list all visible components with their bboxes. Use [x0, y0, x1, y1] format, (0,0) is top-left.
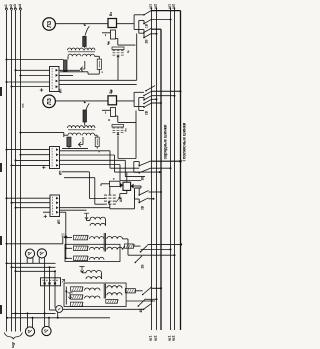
- wire bank top: [60, 207, 110, 209]
- core T1: [68, 51, 95, 53]
- plus ip1: [40, 88, 43, 91]
- label 8V: [139, 308, 143, 313]
- bus S1: [151, 8, 153, 330]
- wire arr1-l1: [87, 218, 91, 221]
- wire left bus line 1: [6, 10, 8, 332]
- wire f2-t2: [84, 122, 86, 126]
- wire arr2-l4: [82, 271, 86, 273]
- label 5V: [141, 176, 145, 181]
- wire r1b down: [88, 69, 99, 74]
- wire vm-1: [6, 262, 56, 264]
- node bus top: [156, 8, 157, 9]
- label 6V: [141, 205, 145, 210]
- bus S2: [156, 8, 158, 330]
- wire y301: [126, 300, 155, 302]
- dot ab: [108, 202, 110, 204]
- bus S3: [170, 8, 172, 330]
- label 7V: [141, 264, 145, 269]
- label shc: [21, 103, 25, 108]
- label IP3: [57, 219, 61, 224]
- resistor R2b: [95, 137, 99, 147]
- wire ab down: [110, 186, 135, 208]
- box VU2: [108, 96, 117, 105]
- wire r4 left: [65, 247, 72, 249]
- wire c2-1: [152, 90, 182, 92]
- wire r11 right: [135, 290, 142, 292]
- coil L4: [86, 270, 101, 272]
- wire tap y59.5: [6, 59, 64, 61]
- label r1b: [100, 71, 104, 73]
- instrument small: [56, 306, 63, 313]
- label IP1: [59, 88, 63, 93]
- label bus 1: [4, 4, 8, 9]
- svg-text:АБ: АБ: [119, 197, 123, 202]
- node bus top: [151, 8, 152, 9]
- fork ch1 inner: [139, 20, 144, 37]
- coil LB2: [107, 293, 122, 296]
- wire t2 sec left: [64, 133, 68, 138]
- margin mark: [0, 236, 2, 245]
- label VU1: [109, 12, 113, 16]
- wire riser x136: [135, 111, 137, 159]
- svg-text:2В: 2В: [144, 110, 148, 115]
- svg-text:ЛЗ: ЛЗ: [47, 20, 53, 28]
- meter A1: [25, 327, 34, 336]
- label c2 switches: [144, 110, 148, 115]
- label bus top ш1: [168, 4, 172, 9]
- node terminal bus 2: [10, 8, 12, 10]
- svg-text:ш2: ш2: [172, 336, 176, 341]
- label bus bottom ш2: [172, 336, 176, 341]
- transformer T2 secondary: [68, 133, 95, 135]
- svg-text:ш3: ш3: [13, 4, 17, 9]
- switch 6V blade b: [138, 198, 148, 204]
- wire left bus line 2: [11, 10, 13, 332]
- wire t2-left: [20, 132, 64, 134]
- fuse F2: [83, 110, 87, 122]
- svg-text:ш2: ш2: [154, 336, 158, 341]
- wire a1 leads: [27, 312, 34, 327]
- fork c3: [134, 162, 139, 173]
- coil TV2: [107, 247, 123, 249]
- wire t1 sec right: [95, 56, 100, 59]
- wire c6-2: [149, 198, 155, 200]
- wire left bus line 3: [15, 10, 17, 332]
- wire ip1 out1: [59, 69, 80, 71]
- wire c2-2: [152, 95, 176, 97]
- wire bat feed upper: [62, 172, 106, 199]
- wire r2a bottom: [62, 147, 88, 149]
- connector IP1: [50, 67, 60, 92]
- battery BK2: [112, 125, 124, 135]
- wire t2 sec right: [95, 135, 98, 137]
- wire c6-1: [149, 191, 163, 193]
- label BK1 right: [126, 50, 130, 53]
- wire c1-2: [152, 19, 172, 21]
- svg-text:4В: 4В: [139, 308, 143, 313]
- switch 7V blade a: [140, 245, 148, 252]
- svg-text:3В: 3В: [141, 205, 145, 210]
- wire ch1 main: [55, 23, 108, 25]
- svg-text:ЛЗ: ЛЗ: [47, 97, 53, 105]
- wire vert 126.8: [126, 173, 128, 183]
- coil TV1: [107, 237, 123, 239]
- label title I: [181, 122, 186, 161]
- margin mark: [0, 87, 2, 96]
- meter V1: [25, 249, 34, 258]
- diode D2: [102, 108, 116, 117]
- label P: [112, 178, 116, 180]
- contact right: [131, 184, 134, 189]
- switch 8V blade b: [138, 299, 146, 307]
- svg-text:д: д: [107, 119, 111, 121]
- svg-text:2В: 2В: [144, 39, 148, 44]
- wire shunt drop b: [49, 266, 51, 310]
- svg-text:ш1: ш1: [149, 336, 153, 341]
- switch 4V blade b: [143, 103, 151, 108]
- wire c4-3: [141, 249, 172, 251]
- wire l1-l2: [105, 220, 107, 226]
- svg-text:п: п: [112, 178, 116, 180]
- label brace: [10, 341, 15, 347]
- wire c1-1 thick: [152, 10, 181, 12]
- wire riser x135.5: [136, 34, 138, 81]
- wire fuse P left: [101, 184, 110, 186]
- wire ip1-a: [15, 69, 50, 71]
- label IP2: [59, 170, 63, 175]
- resistor R6: [125, 244, 136, 248]
- arrow shunt: [62, 279, 65, 282]
- node terminal bus 1: [5, 8, 7, 10]
- label bus bottom ш2: [154, 336, 158, 341]
- wire shunt drop c: [54, 270, 56, 307]
- wire vm-2: [11, 266, 56, 268]
- wire c4-1: [148, 243, 183, 245]
- bus S4: [174, 8, 176, 330]
- switch 2V blade b: [143, 33, 151, 38]
- resistor R10: [106, 299, 119, 303]
- bus charge thick1: [160, 29, 162, 330]
- margin mark: [0, 163, 2, 172]
- wire stub v62.8: [61, 234, 64, 244]
- wire bk2 tail: [118, 135, 136, 158]
- wire d2-route: [116, 116, 137, 122]
- wire circle leads: [50, 308, 56, 311]
- svg-text:ИП: ИП: [57, 219, 61, 224]
- wire vaz right down: [134, 190, 136, 209]
- svg-text:ш1: ш1: [4, 4, 8, 9]
- arrow down 2: [79, 267, 84, 273]
- arrester ch2: [79, 137, 84, 147]
- wire circle bottom: [57, 312, 59, 319]
- contact left: [120, 183, 123, 188]
- svg-text:2В: 2В: [141, 264, 145, 269]
- wire v2 leads: [39, 258, 44, 264]
- switch ch2: [84, 102, 90, 113]
- switch 5V blade a: [138, 161, 151, 167]
- switch 7V blade b: [135, 256, 143, 263]
- label r2b: [97, 150, 101, 152]
- wire bk1 tail: [117, 58, 119, 81]
- fork ch2 inner: [139, 98, 144, 111]
- resistor R1b: [97, 59, 101, 69]
- wire a2 leads: [45, 313, 50, 326]
- transformer T1 primary: [68, 48, 96, 50]
- label bus bottom ш1: [149, 336, 153, 341]
- fork ch2 outer: [134, 92, 144, 106]
- wire vu1-fork: [117, 23, 135, 25]
- transformer T2 primary: [68, 126, 96, 128]
- switch 9V: [143, 304, 151, 310]
- svg-text:зарядные шинки: зарядные шинки: [162, 124, 167, 159]
- wire bank top2: [60, 209, 87, 211]
- transformer T1 secondary: [68, 54, 95, 56]
- coil L5: [86, 277, 101, 279]
- label VU2: [109, 89, 113, 93]
- wire ip1-b: [20, 75, 50, 77]
- box A: [65, 244, 120, 261]
- box B: [64, 283, 126, 307]
- wire tv2-r6: [123, 246, 125, 250]
- label AB: [119, 197, 123, 202]
- meter P1: [43, 18, 56, 31]
- node terminal bus 4: [19, 8, 21, 10]
- switch ch1: [84, 24, 90, 35]
- core T2: [68, 129, 95, 131]
- connector IP3: [50, 195, 60, 217]
- label bus bottom ш1: [168, 336, 172, 341]
- label 2V: [144, 39, 148, 44]
- label 1V: [144, 23, 148, 28]
- wire ip1-c: [6, 81, 50, 83]
- label bus top ш2: [154, 4, 158, 9]
- meter V2: [37, 249, 46, 258]
- label misc y90: [110, 90, 114, 93]
- wire y243.8: [6, 243, 63, 245]
- svg-text:I полюсные шинки: I полюсные шинки: [181, 122, 186, 161]
- wire ip1 out3 long: [59, 79, 137, 81]
- wire ip2-a: [6, 149, 50, 151]
- label bus top ш2: [172, 4, 176, 9]
- switch 6V blade a: [138, 191, 148, 196]
- wire c2-4: [152, 102, 163, 104]
- switch 3V blade a: [143, 91, 151, 96]
- plus ip3: [44, 215, 47, 218]
- svg-text:3В: 3В: [141, 176, 145, 181]
- label bus top ш1: [149, 4, 153, 9]
- svg-text:Вк: Вк: [109, 12, 113, 16]
- svg-text:шс: шс: [21, 103, 25, 108]
- wire c5-2: [146, 298, 158, 300]
- coil LB1: [107, 286, 122, 289]
- switch 5V blade b: [138, 168, 151, 174]
- switch 8V blade a: [142, 287, 151, 295]
- wire f1-t1: [84, 47, 86, 48]
- brace left bus: [4, 333, 22, 340]
- wire ip2 out1: [60, 151, 140, 168]
- wire c1-3 thick: [152, 28, 162, 30]
- wire bank left bus: [65, 212, 67, 258]
- label bus 4: [18, 4, 22, 9]
- battery BK1: [112, 47, 124, 57]
- shunt Sh: [41, 278, 61, 286]
- switch 3V blade b: [143, 96, 151, 101]
- wire vaz right: [134, 186, 141, 188]
- wire c3-2: [151, 167, 172, 169]
- arrow up: [64, 235, 68, 249]
- wire r6 right: [134, 245, 141, 247]
- margin mark: [0, 305, 2, 314]
- transformer TV core: [104, 233, 105, 252]
- label BK1 left: [106, 41, 110, 45]
- connector IP2: [50, 147, 60, 169]
- plus ip2: [42, 166, 45, 169]
- wire bankB left bus: [65, 287, 67, 305]
- arrester ch1: [81, 61, 85, 71]
- wire r2b down: [96, 147, 98, 149]
- wire c4-2: [142, 254, 176, 256]
- wire y313.4: [12, 312, 56, 314]
- switch blade y84.6: [145, 86, 155, 92]
- meter A2: [42, 326, 51, 335]
- switch 1V blade b: [143, 19, 151, 24]
- wire c3-1 thick: [151, 160, 182, 163]
- svg-text:щу: щу: [10, 341, 15, 347]
- wire bank left feed: [60, 211, 66, 213]
- meter P2: [43, 95, 56, 108]
- label D2: [107, 119, 111, 121]
- wire ip2 out4: [60, 165, 142, 181]
- label BK2: [123, 128, 127, 132]
- wire ch2 main: [55, 100, 108, 102]
- node terminal bus 3: [14, 8, 16, 10]
- wire ip3-d: [43, 211, 50, 213]
- wire y318 long: [6, 317, 110, 319]
- resistor R11: [125, 289, 136, 293]
- wire ip2-b: [20, 154, 50, 156]
- wire c5-1 thick: [151, 287, 162, 289]
- arrow down 3: [65, 290, 72, 298]
- wire l4-l5: [101, 273, 103, 279]
- wire left bus line 4: [20, 10, 22, 332]
- wire shunt drop a: [44, 263, 46, 314]
- box VAZ: [123, 182, 131, 190]
- coil L1: [90, 217, 105, 219]
- diode D1: [102, 30, 116, 39]
- bus charge thick2: [180, 11, 182, 330]
- wire ip2 out2: [60, 155, 161, 173]
- wire r3 left: [65, 237, 72, 239]
- label D1: [107, 41, 111, 43]
- wire c2-3: [152, 98, 158, 100]
- svg-text:ξк: ξк: [126, 50, 130, 53]
- node bus top: [170, 8, 171, 9]
- fuse P: [110, 181, 121, 186]
- label title II: [162, 124, 167, 159]
- svg-text:ИП: ИП: [59, 170, 63, 175]
- switch 2V blade a: [143, 28, 151, 33]
- label bus 3: [13, 4, 17, 9]
- resistor R7: [71, 287, 100, 291]
- box VU1: [108, 19, 117, 28]
- resistor R1a: [64, 60, 68, 72]
- resistor R4: [74, 246, 105, 251]
- wire ip1 out4 long: [59, 84, 137, 86]
- svg-text:ИП: ИП: [59, 88, 63, 93]
- wire ip2 out3: [60, 160, 146, 176]
- wire c1-4: [152, 33, 158, 35]
- wire vu2-fork: [117, 100, 135, 102]
- svg-text:Вк: Вк: [109, 89, 113, 93]
- switch 4V blade a: [143, 99, 151, 104]
- wire vaz bottom: [120, 190, 127, 198]
- resistor R9: [71, 302, 84, 306]
- switch 1V blade a: [143, 10, 151, 15]
- resistor R2a: [67, 137, 71, 147]
- wire ip3-a: [6, 197, 51, 199]
- resistor R8: [71, 295, 100, 299]
- fork c6: [135, 188, 140, 203]
- arrow down 1: [84, 213, 89, 219]
- svg-text:Бк: Бк: [106, 41, 110, 45]
- wire ip2-d: [11, 164, 50, 166]
- wire v1 leads: [27, 258, 33, 263]
- wire ip3-c: [15, 207, 51, 209]
- label bus 2: [9, 4, 13, 9]
- wire d1-route: [116, 39, 136, 46]
- wire ip2-c: [15, 159, 50, 161]
- coil L2: [90, 223, 105, 225]
- wire y309: [63, 308, 144, 310]
- wire tv1 out: [123, 239, 143, 255]
- svg-text:ш4: ш4: [18, 4, 22, 9]
- wire bat feed lower: [64, 178, 104, 205]
- wire r5 left: [65, 257, 72, 259]
- wire t1 sec left: [67, 56, 69, 59]
- svg-text:1В: 1В: [144, 23, 148, 28]
- transformer TV2 core: [104, 284, 105, 299]
- node bus top: [174, 8, 175, 9]
- svg-text:Ак: Ак: [123, 128, 127, 132]
- wire ip3-b: [11, 202, 51, 204]
- wire r1a bottom: [60, 71, 88, 73]
- resistor R5: [74, 256, 105, 261]
- battery AB: [104, 195, 120, 204]
- wire ip1-d: [11, 86, 50, 88]
- fuse F1: [83, 36, 87, 46]
- fork ch1 outer: [134, 15, 144, 33]
- wire vm-3: [15, 270, 56, 272]
- wire ip1 out2: [59, 75, 73, 77]
- resistor R3: [74, 235, 105, 240]
